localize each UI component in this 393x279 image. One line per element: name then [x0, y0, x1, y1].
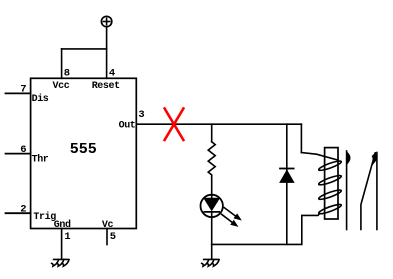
- relay armature arrow: [347, 151, 350, 230]
- resistor R1: [208, 142, 215, 178]
- wire return bottom: [212, 243, 301, 245]
- svg-text:Trig: Trig: [33, 211, 56, 223]
- relay contact fixed: [376, 153, 378, 230]
- svg-text:Reset: Reset: [92, 81, 120, 92]
- svg-text:4: 4: [109, 68, 115, 80]
- wire Out pin 3 net: [136, 123, 301, 125]
- wire V+ to Reset pin 4: [106, 27, 108, 79]
- svg-text:Thr: Thr: [32, 153, 49, 165]
- wire coil top stub: [301, 153, 338, 161]
- ground G2: [202, 259, 219, 266]
- svg-text:5: 5: [110, 231, 116, 243]
- svg-text:Gnd: Gnd: [54, 219, 71, 231]
- LED emission arrows: [224, 208, 236, 217]
- pin 1 Gnd wire: [61, 229, 63, 259]
- diode D2 branch wire: [286, 124, 288, 244]
- X marker on Out net: [165, 109, 184, 141]
- wire coil branch down: [300, 124, 302, 152]
- wire LED to ground: [211, 217, 213, 259]
- diode D2: [280, 169, 294, 183]
- LED D1: [201, 195, 241, 227]
- resistor R1 branch wire: [211, 124, 213, 142]
- 555 timer U1 body: [31, 78, 137, 228]
- svg-text:Out: Out: [119, 121, 136, 132]
- svg-text:555: 555: [70, 141, 97, 158]
- relay coil K1 windings: [318, 159, 342, 215]
- relay contact moving: [361, 153, 375, 230]
- svg-text:7: 7: [20, 84, 26, 96]
- svg-text:Vc: Vc: [102, 220, 114, 231]
- power supply V+: [101, 16, 111, 26]
- ground G1: [52, 259, 69, 266]
- svg-text:Vcc: Vcc: [53, 81, 70, 92]
- wire coil bottom stub: [302, 213, 320, 244]
- wire R1 to LED: [211, 177, 213, 194]
- relay coil K1 core: [325, 148, 338, 219]
- svg-text:1: 1: [64, 231, 70, 243]
- svg-text:8: 8: [64, 68, 70, 80]
- pin 2 Trig stub: [6, 212, 31, 214]
- svg-text:2: 2: [20, 203, 26, 215]
- relay contact arrowhead: [372, 153, 377, 165]
- svg-text:Dis: Dis: [32, 93, 49, 105]
- pin 7 Dis stub: [6, 92, 31, 94]
- pin 6 Thr stub: [6, 153, 31, 155]
- wire Vcc pin 8 lead: [61, 49, 63, 78]
- svg-text:6: 6: [20, 144, 26, 156]
- wire top horizontal pin8 to pin4 net: [62, 48, 107, 50]
- svg-text:3: 3: [138, 109, 144, 121]
- pin 5 Vc stub: [106, 229, 108, 245]
